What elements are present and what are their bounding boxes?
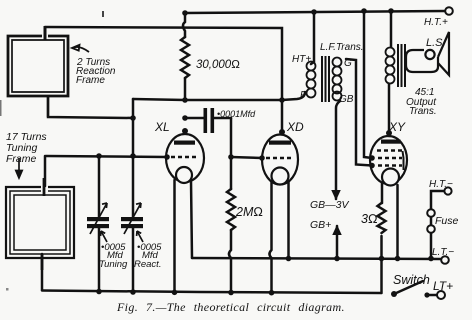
svg-text:XL: XL xyxy=(154,120,170,134)
svg-text:Switch: Switch xyxy=(393,273,430,287)
svg-text:Tuning: Tuning xyxy=(99,259,128,270)
svg-text:Fuse: Fuse xyxy=(435,215,459,227)
svg-text:L.S.: L.S. xyxy=(426,37,446,49)
svg-text:P: P xyxy=(300,90,307,101)
svg-text:Frame: Frame xyxy=(6,153,36,165)
svg-text:Frame: Frame xyxy=(76,75,105,86)
svg-text:XY: XY xyxy=(388,120,406,134)
svg-text:GB—3V: GB—3V xyxy=(310,199,350,211)
svg-text:H.T.−: H.T.− xyxy=(429,179,453,190)
svg-text:XD: XD xyxy=(286,120,304,134)
svg-text:Trans.: Trans. xyxy=(409,106,437,117)
svg-text:3Ω: 3Ω xyxy=(361,212,378,226)
svg-text:•0001Mfd: •0001Mfd xyxy=(217,109,256,119)
svg-text:30,000Ω: 30,000Ω xyxy=(196,59,240,71)
svg-text:HT+: HT+ xyxy=(292,54,311,65)
svg-text:2MΩ: 2MΩ xyxy=(235,205,263,219)
svg-text:L.T.−: L.T.− xyxy=(432,247,454,258)
svg-text:G: G xyxy=(344,58,352,69)
svg-text:L.F.Trans.: L.F.Trans. xyxy=(320,42,364,53)
svg-text:LT+: LT+ xyxy=(433,279,453,293)
svg-text:GB: GB xyxy=(339,94,354,105)
svg-text:Fig. 7.—The theoretical circui: Fig. 7.—The theoretical circuit diagram. xyxy=(116,300,345,314)
svg-text:GB+: GB+ xyxy=(310,219,331,231)
svg-text:React.: React. xyxy=(134,259,161,270)
svg-text:H.T.+: H.T.+ xyxy=(424,17,448,28)
